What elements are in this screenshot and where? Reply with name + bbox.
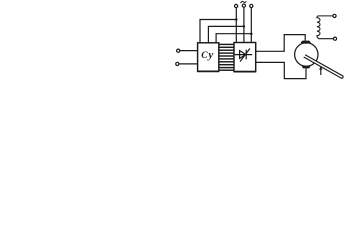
motor M1 bottom brush [302, 66, 311, 69]
terminal X6 (field +) [333, 14, 336, 17]
terminal X4 (phase B) [242, 4, 245, 7]
wire tap 2 to СУ [208, 26, 244, 42]
wire rectifier plus output to motor top brush [256, 35, 306, 52]
junction dot 2 [243, 25, 246, 28]
thyristor VS1 anode line [235, 54, 253, 56]
wire rectifier minus output to motor bottom brush [256, 62, 306, 78]
terminal X7 (field -) [333, 37, 336, 40]
terminal X1 (upper left input) [177, 49, 180, 52]
svg-text:Су: Су [201, 49, 214, 61]
thyristor VS1 triangle [240, 51, 246, 59]
terminal X5 (phase C) [250, 4, 253, 7]
wire tap 1 to СУ [200, 20, 236, 43]
wire phase A vertical [235, 8, 237, 43]
thyristor VS1 cathode bar [245, 50, 247, 60]
electrode feed arrow [320, 68, 322, 75]
wire X2 to control unit [179, 63, 198, 65]
control pulse bundle between СУ and rectifier [219, 44, 234, 70]
control unit box U1 (СУ) [198, 43, 219, 71]
control unit bottom edge emphasis [197, 70, 219, 72]
wire phase C vertical [250, 8, 252, 43]
field winding L1 (coil) [317, 16, 333, 39]
AC tilde mark [241, 1, 247, 3]
electrode through motor [304, 55, 343, 78]
thyristor VS1 control slash [240, 49, 250, 62]
motor M1 armature circle [295, 43, 318, 66]
wire tap 3 to СУ [216, 34, 251, 43]
terminal X3 (phase A) [235, 4, 238, 7]
wire X1 to control unit [180, 50, 198, 52]
terminal X2 (lower left input) [176, 62, 179, 65]
junction dot 3 [250, 32, 253, 35]
motor M1 top brush [301, 41, 312, 44]
rectifier bottom edge emphasis [234, 71, 257, 73]
wire phase B vertical [243, 7, 245, 42]
thyristor rectifier box U2 [234, 43, 256, 72]
junction dot 1 [235, 18, 238, 21]
